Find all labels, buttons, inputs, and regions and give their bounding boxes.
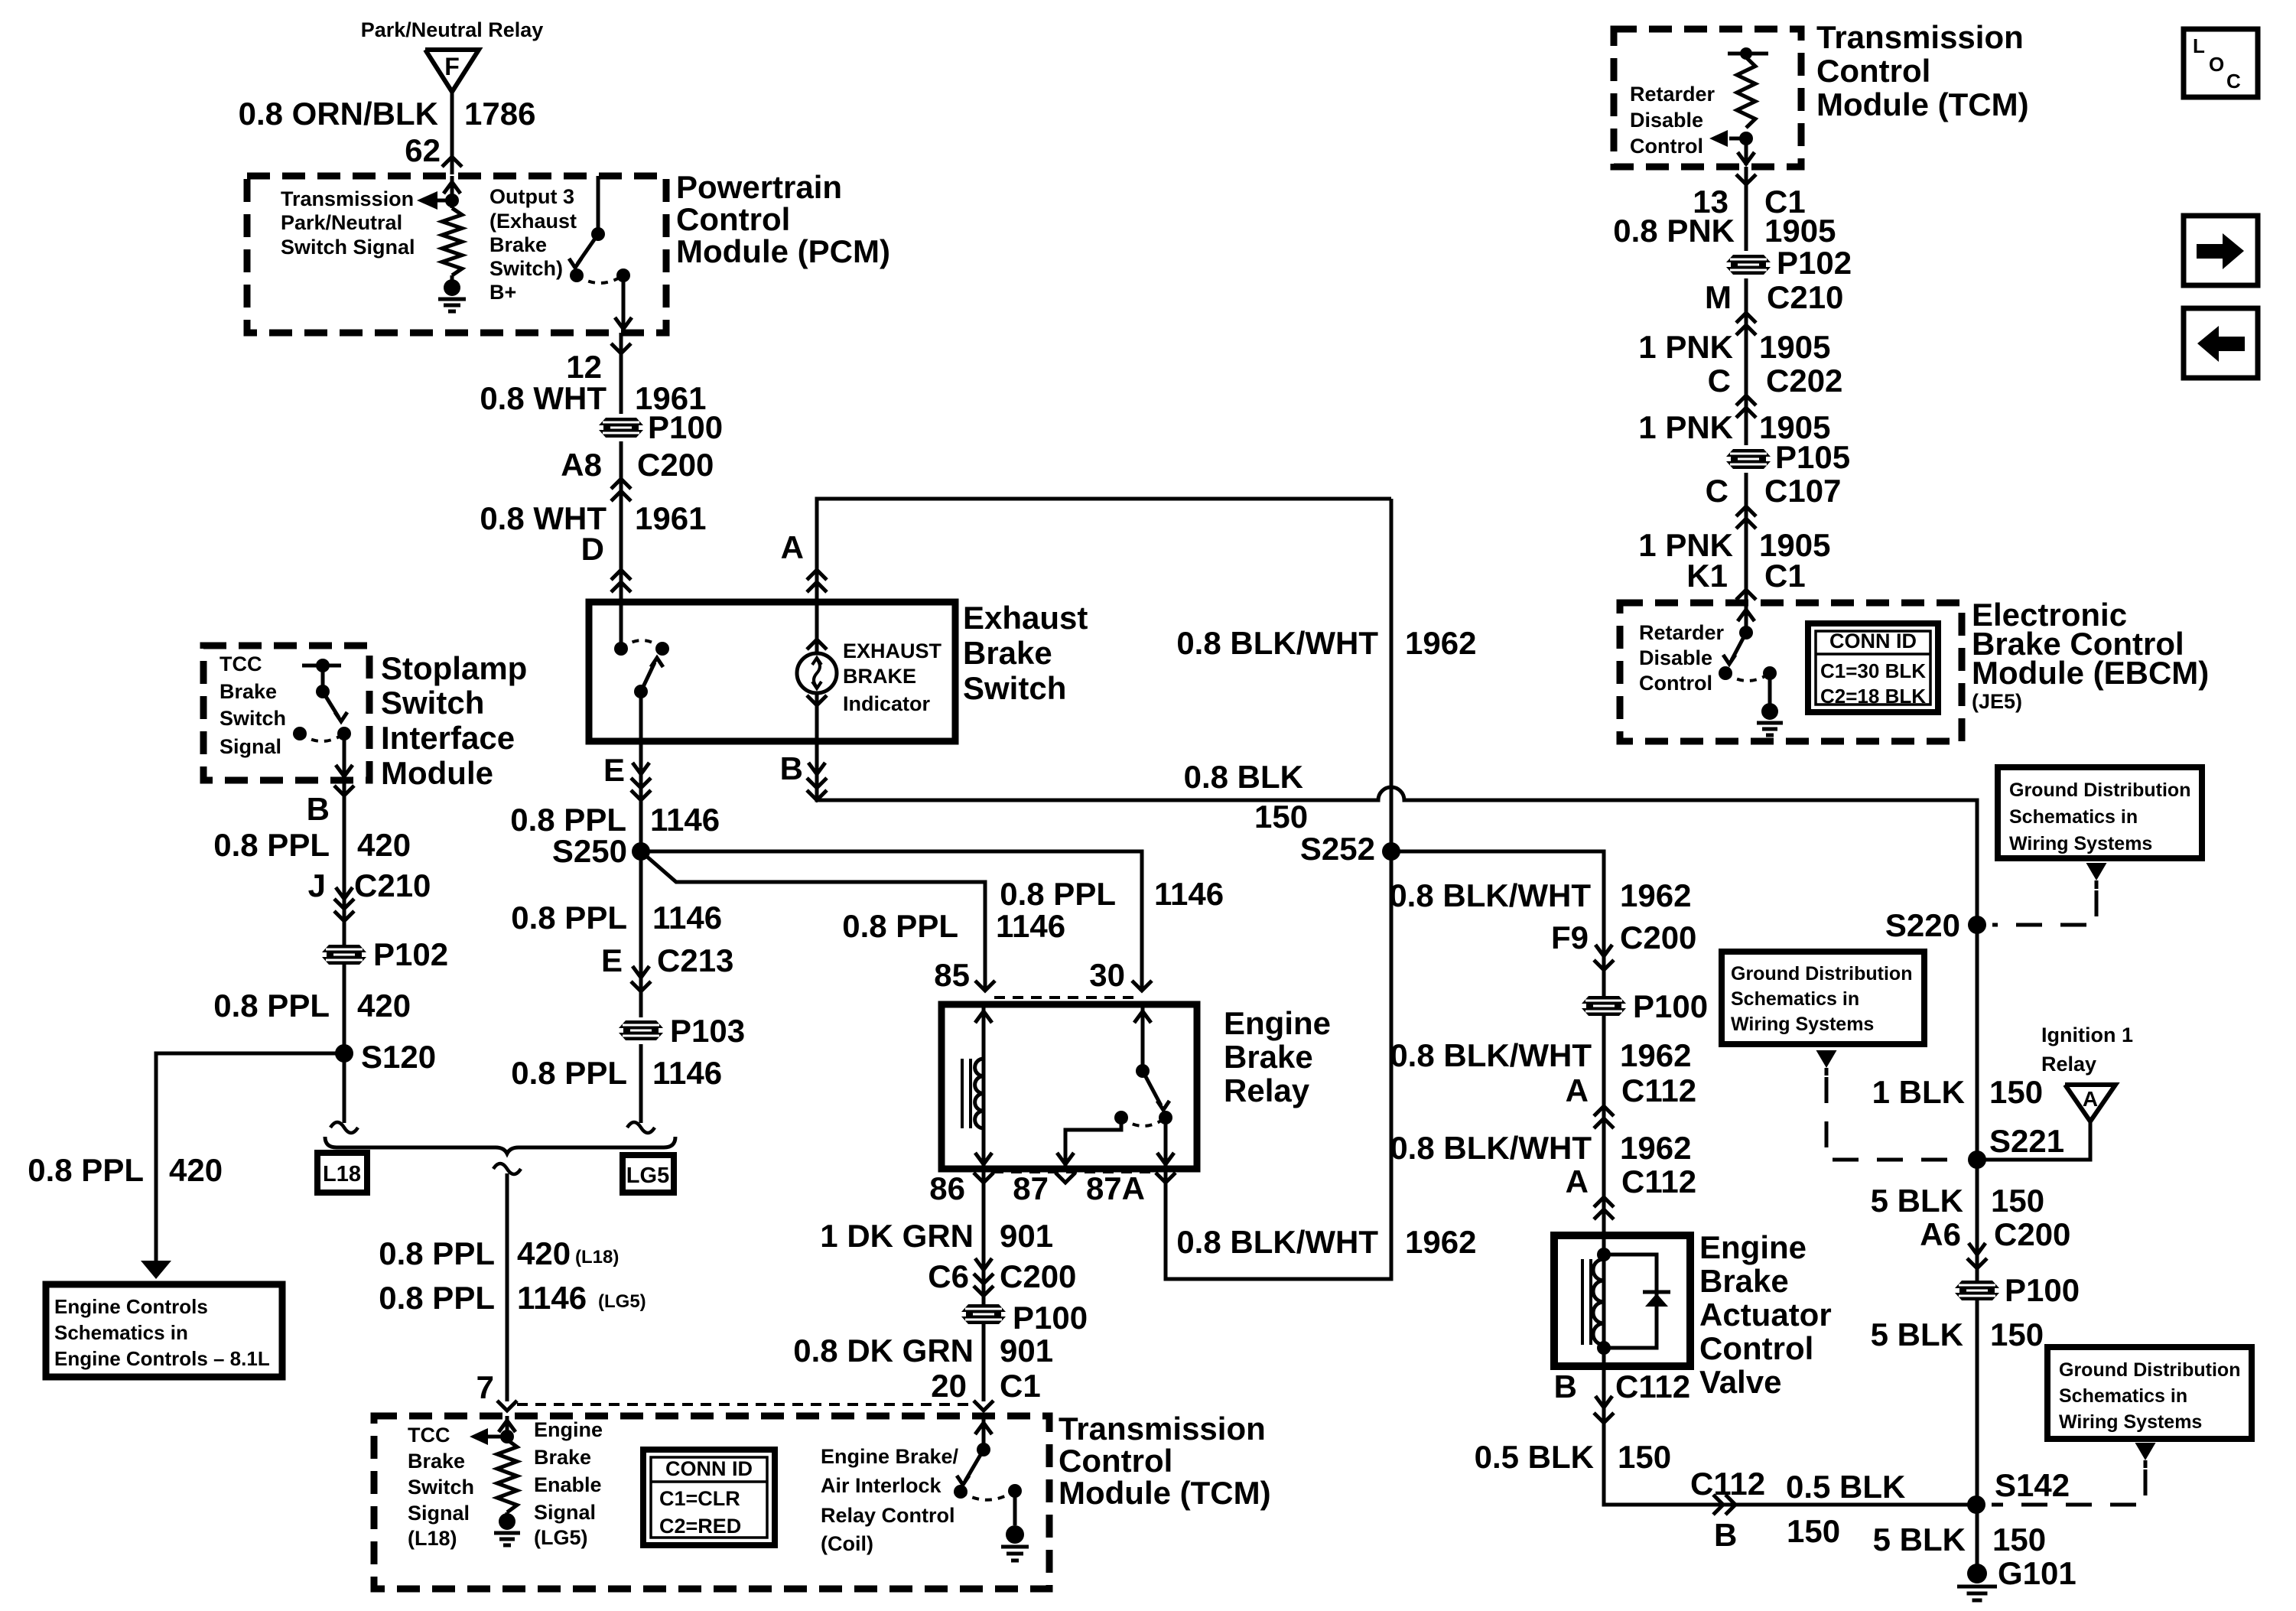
- connector chevron A double: [807, 570, 827, 580]
- svg-text:0.8 BLK/WHT: 0.8 BLK/WHT: [1176, 625, 1378, 661]
- wire F relay to PCM pin 62: [450, 92, 454, 174]
- pin E exit arrow and chevrons: [633, 763, 649, 774]
- Ground Distribution reference box middle: [1722, 952, 1924, 1044]
- svg-text:Brake: Brake: [534, 1446, 591, 1469]
- svg-text:A6: A6: [1920, 1216, 1961, 1252]
- chevron pin 7: [497, 1401, 517, 1411]
- relay switch entry arrow: [1134, 1011, 1151, 1023]
- svg-text:Wiring Systems: Wiring Systems: [2059, 1411, 2202, 1433]
- TCM stub dot: [1740, 47, 1752, 60]
- exhaust switch contact dot left: [614, 642, 628, 656]
- TCM resistor stub: [1728, 52, 1768, 56]
- svg-text:P105: P105: [1775, 439, 1850, 475]
- svg-text:(JE5): (JE5): [1972, 690, 2022, 713]
- svg-text:Switch: Switch: [381, 685, 484, 721]
- splice S221: [1968, 1150, 1986, 1169]
- svg-text:Powertrain: Powertrain: [676, 169, 842, 205]
- dashed reference S220: [1992, 890, 2096, 925]
- svg-text:1962: 1962: [1405, 1224, 1476, 1260]
- svg-text:Brake: Brake: [489, 233, 547, 256]
- svg-text:P100: P100: [1013, 1300, 1088, 1336]
- svg-text:Control: Control: [1699, 1330, 1813, 1366]
- svg-text:1962: 1962: [1620, 877, 1691, 913]
- dashed reference S142: [1992, 1469, 2145, 1505]
- wire C202 to P105: [1745, 417, 1748, 445]
- connector C112 double chevron up: [1594, 1106, 1614, 1116]
- svg-text:A: A: [781, 529, 804, 565]
- reference triangle below middle box: [1816, 1050, 1837, 1068]
- chevron pin 30: [1132, 981, 1152, 991]
- svg-text:J: J: [308, 867, 326, 903]
- svg-text:150: 150: [1991, 1183, 2044, 1219]
- PCM exhaust brake switch: fixed contact wire: [597, 176, 600, 234]
- svg-text:150: 150: [1787, 1513, 1840, 1549]
- wire S252 to F9: [1391, 851, 1604, 1235]
- relay switch 87 throw dot: [1114, 1111, 1128, 1124]
- svg-text:Switch: Switch: [963, 670, 1066, 706]
- svg-text:12: 12: [566, 349, 602, 385]
- svg-text:Park/Neutral Relay: Park/Neutral Relay: [361, 18, 544, 41]
- svg-text:Stoplamp: Stoplamp: [381, 650, 527, 686]
- svg-text:C200: C200: [1994, 1216, 2070, 1252]
- wire pin B to S120: [343, 780, 346, 1053]
- svg-text:S252: S252: [1300, 831, 1375, 867]
- svg-text:TCC: TCC: [408, 1424, 450, 1447]
- connector C112 double chevron up second: [1594, 1197, 1614, 1207]
- svg-text:5 BLK: 5 BLK: [1873, 1521, 1966, 1557]
- switch dashed arc: [577, 275, 623, 283]
- chevron below indicator: [807, 695, 827, 705]
- relay coil wire 85-86: [982, 1004, 986, 1169]
- wire TCM pin 13 exit: [1745, 138, 1748, 165]
- svg-text:Air Interlock: Air Interlock: [821, 1474, 942, 1497]
- wire valve pin B down to S142 run: [1604, 1366, 1976, 1505]
- svg-text:Module (TCM): Module (TCM): [1059, 1475, 1271, 1511]
- svg-text:1905: 1905: [1759, 329, 1830, 365]
- svg-text:0.8 PPL: 0.8 PPL: [213, 988, 330, 1024]
- svg-text:Engine: Engine: [534, 1418, 603, 1441]
- svg-text:0.8 PPL: 0.8 PPL: [213, 827, 330, 863]
- svg-text:Engine Controls – 8.1L: Engine Controls – 8.1L: [54, 1347, 270, 1370]
- svg-text:L18: L18: [323, 1162, 361, 1186]
- svg-text:B: B: [307, 791, 330, 827]
- svg-text:0.8 PPL: 0.8 PPL: [1000, 876, 1116, 912]
- resistor in PCM: [450, 200, 454, 208]
- LOC legend box: [2184, 29, 2258, 97]
- wire stoplamp switch output pin B: [343, 734, 346, 778]
- svg-text:CONN ID: CONN ID: [1829, 630, 1917, 653]
- svg-text:Ignition 1: Ignition 1: [2041, 1024, 2133, 1046]
- svg-text:C200: C200: [637, 447, 714, 483]
- stoplamp switch right throw dot: [337, 727, 351, 740]
- svg-text:C107: C107: [1764, 473, 1841, 509]
- svg-text:0.5 BLK: 0.5 BLK: [1786, 1469, 1905, 1505]
- Exhaust Brake Switch box: [589, 602, 955, 741]
- connector C200 arrow+chevron on ground lead: [1969, 1243, 1985, 1255]
- svg-text:0.8 PPL: 0.8 PPL: [511, 1055, 627, 1091]
- relay bottom connector chevrons: [974, 1173, 994, 1183]
- EBCM switch left throw dot: [1719, 666, 1732, 680]
- svg-text:P102: P102: [373, 936, 448, 972]
- svg-text:C: C: [2226, 70, 2241, 93]
- svg-text:Ground Distribution: Ground Distribution: [2059, 1359, 2240, 1381]
- valve coil top node: [1597, 1248, 1611, 1261]
- relay switch dashed arc: [1121, 1118, 1166, 1126]
- svg-text:150: 150: [1989, 1074, 2043, 1110]
- svg-text:30: 30: [1089, 957, 1125, 993]
- TCM switch ground stem: [1013, 1491, 1017, 1525]
- svg-text:Brake: Brake: [220, 680, 277, 703]
- svg-text:1 PNK: 1 PNK: [1638, 409, 1733, 445]
- svg-text:Enable: Enable: [534, 1473, 602, 1496]
- relay reference triangle F (Park/Neutral Relay): [425, 50, 479, 92]
- EBCM switch ground stem: [1768, 673, 1772, 704]
- svg-text:Switch Signal: Switch Signal: [281, 236, 415, 259]
- chevron pin 13: [1736, 174, 1756, 184]
- svg-text:Schematics in: Schematics in: [2059, 1385, 2187, 1407]
- svg-text:C1=30 BLK: C1=30 BLK: [1820, 659, 1926, 682]
- svg-text:20: 20: [931, 1368, 967, 1404]
- valve coil: [1593, 1259, 1604, 1345]
- svg-text:E: E: [603, 752, 625, 788]
- pin B exit arrow + chevron: [1595, 1396, 1612, 1408]
- connector P100 grommet on 86 wire: [961, 1304, 1006, 1324]
- svg-text:Schematics in: Schematics in: [54, 1321, 188, 1344]
- svg-text:Wiring Systems: Wiring Systems: [2009, 833, 2152, 854]
- TCM relay control switch entry arrow: [982, 1416, 986, 1450]
- valve diode branch: [1604, 1255, 1657, 1348]
- wire pin 13 to P102: [1745, 167, 1748, 251]
- svg-text:Switch: Switch: [220, 707, 286, 730]
- svg-text:85: 85: [934, 957, 970, 993]
- svg-text:(L18): (L18): [575, 1247, 619, 1268]
- legend box arrow left: [2184, 308, 2258, 378]
- svg-text:B: B: [780, 750, 803, 786]
- wire S120 down to brace: [343, 1053, 346, 1123]
- svg-text:(Exhaust: (Exhaust: [489, 210, 577, 233]
- svg-text:C6: C6: [928, 1258, 969, 1294]
- svg-text:Disable: Disable: [1630, 109, 1703, 132]
- svg-text:EXHAUST: EXHAUST: [843, 640, 942, 662]
- relay wire to pin 87A: [1164, 1118, 1168, 1169]
- connector C200 arrow + chevrons on 86 wire: [975, 1258, 992, 1270]
- svg-text:Retarder: Retarder: [1639, 621, 1725, 644]
- Ground Distribution reference box bottom right: [2047, 1347, 2252, 1439]
- relay switch arm: [1143, 1071, 1161, 1105]
- svg-text:1146: 1146: [650, 802, 720, 838]
- wire pin E to S250: [639, 741, 643, 851]
- ground in PCM: [450, 275, 454, 280]
- connector C107 double chevron up: [1736, 506, 1756, 516]
- resistor in TCM: [497, 1440, 517, 1512]
- svg-text:C210: C210: [1767, 279, 1843, 315]
- svg-text:0.8 ORN/BLK: 0.8 ORN/BLK: [239, 96, 438, 132]
- TCM switch contact dot: [977, 1443, 990, 1456]
- relay reference triangle A (Ignition 1 Relay): [2065, 1085, 2116, 1121]
- svg-text:(Coil): (Coil): [821, 1532, 873, 1555]
- svg-text:1 BLK: 1 BLK: [1872, 1074, 1965, 1110]
- svg-text:87A: 87A: [1086, 1170, 1145, 1206]
- legend box arrow right: [2184, 216, 2258, 285]
- exhaust switch arm pivot dot: [634, 685, 648, 698]
- relay switch wire from 30: [1141, 1004, 1145, 1071]
- svg-text:Engine Controls: Engine Controls: [54, 1295, 208, 1318]
- svg-text:A: A: [1566, 1163, 1589, 1199]
- svg-text:1961: 1961: [635, 500, 706, 536]
- svg-text:C213: C213: [657, 942, 733, 978]
- EBCM switch right throw dot: [1763, 666, 1777, 680]
- svg-text:0.8 BLK/WHT: 0.8 BLK/WHT: [1389, 877, 1591, 913]
- svg-text:0.8 BLK: 0.8 BLK: [1184, 759, 1303, 795]
- wire switch output to PCM pin 12: [622, 275, 626, 330]
- svg-text:150: 150: [1992, 1521, 2046, 1557]
- svg-text:C112: C112: [1615, 1369, 1690, 1404]
- connector P103 grommet: [619, 1020, 663, 1040]
- reference triangle below box: [2086, 863, 2107, 880]
- svg-text:C1: C1: [1000, 1368, 1041, 1404]
- wire C107 to EBCM: [1745, 528, 1748, 603]
- svg-text:B: B: [1714, 1517, 1737, 1553]
- svg-text:Brake: Brake: [1699, 1263, 1789, 1299]
- connector C200 arrow+chevron on F9 wire: [1595, 945, 1612, 956]
- svg-text:Control: Control: [1630, 135, 1703, 158]
- svg-text:Schematics in: Schematics in: [2009, 806, 2138, 828]
- svg-text:CONN ID: CONN ID: [665, 1457, 753, 1480]
- wire C210 to C202: [1745, 334, 1748, 417]
- relay coil exit arrow bottom: [975, 1153, 992, 1164]
- splice S142: [1967, 1495, 1985, 1514]
- relay wire to pin 87: [1065, 1118, 1121, 1169]
- svg-text:F: F: [444, 53, 460, 80]
- svg-text:(LG5): (LG5): [534, 1526, 588, 1549]
- svg-text:Retarder: Retarder: [1630, 83, 1715, 106]
- svg-text:0.8 BLK/WHT: 0.8 BLK/WHT: [1390, 1037, 1592, 1073]
- svg-text:1146: 1146: [996, 908, 1065, 944]
- wire-merge tilde right: [627, 1122, 655, 1133]
- svg-text:S120: S120: [361, 1039, 436, 1075]
- exhaust switch contact dot right: [655, 642, 669, 656]
- svg-text:1786: 1786: [464, 96, 535, 132]
- svg-text:Module (EBCM): Module (EBCM): [1972, 655, 2209, 691]
- svg-text:420: 420: [357, 988, 411, 1024]
- svg-text:Signal: Signal: [220, 735, 281, 758]
- svg-text:1 PNK: 1 PNK: [1638, 329, 1733, 365]
- svg-text:Switch): Switch): [489, 257, 563, 280]
- connector P102 grommet top right: [1726, 255, 1771, 275]
- stoplamp switch: stub and contact: [302, 664, 341, 668]
- svg-text:150: 150: [1618, 1439, 1671, 1475]
- svg-text:1962: 1962: [1620, 1037, 1691, 1073]
- svg-text:Control: Control: [1059, 1443, 1172, 1479]
- svg-text:5 BLK: 5 BLK: [1871, 1316, 1963, 1352]
- stoplamp switch left throw dot: [293, 727, 307, 740]
- wire P102 to C210: [1745, 278, 1748, 334]
- valve coil wire: [1602, 1235, 1606, 1366]
- Engine Brake Actuator Control Valve box: [1554, 1235, 1690, 1366]
- Ground Distribution reference box top right: [1998, 767, 2202, 858]
- svg-text:150: 150: [1990, 1316, 2044, 1352]
- svg-text:(LG5): (LG5): [598, 1291, 646, 1312]
- svg-text:Relay: Relay: [1224, 1072, 1310, 1108]
- CONN ID table EBCM: [1808, 623, 1938, 712]
- svg-text:7: 7: [476, 1369, 494, 1405]
- svg-text:0.8 DK GRN: 0.8 DK GRN: [793, 1333, 974, 1369]
- wire S250 branch to relay pin 30: [641, 851, 1142, 991]
- relay connector dashed line top: [994, 996, 1133, 999]
- switch throw dot left: [570, 268, 584, 282]
- wire relay pin 86 to TCM pin 20: [982, 1172, 986, 1401]
- splice S252: [1382, 842, 1400, 861]
- CONN ID table TCM: [643, 1450, 775, 1545]
- wire PCM pin 12 to P100: [620, 333, 623, 414]
- svg-text:Schematics in: Schematics in: [1731, 988, 1859, 1010]
- svg-text:(L18): (L18): [408, 1527, 457, 1550]
- svg-text:1146: 1146: [1154, 876, 1224, 912]
- svg-text:B: B: [1554, 1369, 1577, 1404]
- wire S250 diagonal branch to relay pin 85: [641, 851, 985, 991]
- TCM internal junction dot: [500, 1430, 514, 1443]
- valve coil bottom node: [1597, 1341, 1611, 1355]
- relay switch 87A throw dot: [1159, 1111, 1172, 1124]
- relay coil: [975, 1059, 984, 1128]
- svg-text:D: D: [581, 531, 604, 567]
- svg-text:C210: C210: [354, 867, 431, 903]
- svg-text:C2=18 BLK: C2=18 BLK: [1820, 685, 1926, 708]
- EBCM pin K1 entry arrow: [1745, 603, 1748, 633]
- svg-text:0.8 PPL: 0.8 PPL: [511, 900, 627, 936]
- switch contact dot: [591, 227, 605, 241]
- svg-text:Module (PCM): Module (PCM): [676, 233, 890, 269]
- double chevron on S142 horizontal run: [1713, 1495, 1723, 1515]
- exhaust brake indicator lamp circle: [797, 653, 837, 693]
- svg-text:Indicator: Indicator: [843, 692, 931, 715]
- svg-text:S221: S221: [1989, 1123, 2064, 1159]
- stoplamp switch dashed arc: [300, 734, 344, 741]
- wire-merge tilde left: [330, 1122, 358, 1133]
- svg-text:Control: Control: [1639, 672, 1712, 695]
- diode in valve: [1643, 1290, 1670, 1294]
- svg-text:1146: 1146: [517, 1280, 587, 1316]
- main ground lead: S220 S221 column: [1976, 800, 1979, 1565]
- connector C200 double chevron: [611, 479, 631, 489]
- svg-text:G101: G101: [1998, 1555, 2076, 1591]
- dashed reference S221: [1826, 1077, 1962, 1160]
- TCM pin 7 entry arrow: [506, 1416, 509, 1437]
- TCM switch left throw dot: [954, 1485, 968, 1499]
- svg-text:Brake: Brake: [408, 1450, 465, 1473]
- connector C210 arrow + double chevron: [336, 887, 353, 899]
- connector C213 arrow + chevron: [633, 966, 649, 978]
- exhaust switch: D contact wire: [620, 602, 623, 649]
- svg-text:Engine: Engine: [1224, 1005, 1331, 1041]
- svg-text:P100: P100: [1633, 988, 1708, 1024]
- svg-text:Park/Neutral: Park/Neutral: [281, 211, 402, 234]
- connector chevron pin 62: [442, 157, 462, 167]
- chevron pin 20: [974, 1401, 994, 1411]
- resistor in TCM top: [1737, 57, 1755, 128]
- svg-text:P100: P100: [2005, 1272, 2080, 1308]
- ground at TCM switch: [1006, 1525, 1024, 1544]
- svg-text:Relay: Relay: [2041, 1053, 2096, 1076]
- svg-text:C200: C200: [1620, 919, 1696, 955]
- svg-text:Engine Brake/: Engine Brake/: [821, 1445, 959, 1468]
- tag LG5: [623, 1155, 674, 1193]
- svg-text:A: A: [2083, 1087, 2098, 1111]
- svg-text:86: 86: [929, 1170, 965, 1206]
- arrowhead to Engine Controls box: [141, 1261, 171, 1279]
- svg-text:Brake: Brake: [1224, 1039, 1313, 1075]
- svg-text:0.8 PPL: 0.8 PPL: [842, 908, 958, 944]
- svg-text:S142: S142: [1995, 1467, 2070, 1503]
- connector P105 grommet: [1726, 449, 1771, 469]
- svg-text:0.5 BLK: 0.5 BLK: [1475, 1439, 1594, 1475]
- svg-text:C1: C1: [1764, 558, 1806, 594]
- svg-text:TCC: TCC: [220, 653, 262, 675]
- svg-text:Transmission: Transmission: [1816, 19, 2024, 55]
- TCM switch right throw dot: [1008, 1484, 1022, 1498]
- wire S250 to P103: [639, 851, 643, 1017]
- connector P100 grommet on ground lead: [1955, 1281, 1999, 1300]
- EBCM switch dashed arc: [1725, 673, 1770, 681]
- svg-text:Ground Distribution: Ground Distribution: [1731, 963, 1912, 984]
- svg-text:S220: S220: [1885, 907, 1960, 943]
- svg-text:E: E: [601, 942, 623, 978]
- svg-text:C2=RED: C2=RED: [659, 1515, 741, 1538]
- brace joining L18 and LG5 wires: [325, 1137, 675, 1154]
- relay coil entry arrow top: [975, 1011, 992, 1023]
- PCM Transmission Park/Neutral Switch Signal arrow: [423, 199, 452, 203]
- svg-text:0.8 WHT: 0.8 WHT: [480, 380, 607, 416]
- svg-text:C112: C112: [1621, 1072, 1696, 1108]
- PCM dashed box: [247, 176, 666, 333]
- svg-text:1962: 1962: [1620, 1130, 1691, 1166]
- svg-text:1 DK GRN: 1 DK GRN: [820, 1218, 974, 1254]
- svg-text:Transmission: Transmission: [281, 187, 414, 210]
- svg-text:Module: Module: [381, 755, 493, 791]
- splice S250: [632, 842, 650, 861]
- svg-text:Output 3: Output 3: [489, 185, 574, 208]
- TCM switch dashed arc: [961, 1491, 1015, 1500]
- splice S220: [1968, 916, 1986, 934]
- connector P100 grommet on F9 wire: [1582, 996, 1626, 1016]
- svg-text:A: A: [1566, 1072, 1589, 1108]
- wire P100 to C200: [620, 441, 623, 501]
- svg-text:0.8 BLK/WHT: 0.8 BLK/WHT: [1390, 1130, 1592, 1166]
- svg-text:P100: P100: [648, 409, 723, 445]
- splice S120: [335, 1044, 353, 1063]
- chevron above indicator: [807, 640, 827, 649]
- Transmission Control Module (TCM) dashed box top: [1614, 29, 1801, 167]
- svg-text:Interface: Interface: [381, 720, 515, 756]
- connector C202 double chevron up: [1736, 395, 1756, 405]
- switch arm: [577, 234, 598, 264]
- svg-text:C: C: [1708, 363, 1731, 399]
- svg-text:S250: S250: [552, 833, 627, 869]
- TCM C1 connector dashed line: [517, 1403, 974, 1406]
- wire riser top to exhaust switch pin A: [1390, 499, 1394, 851]
- svg-text:Control: Control: [1816, 53, 1930, 89]
- svg-text:F9: F9: [1551, 919, 1589, 955]
- Electronic Brake Control Module dashed box: [1620, 603, 1962, 741]
- svg-text:C200: C200: [1000, 1258, 1076, 1294]
- PCM pin 62 entry arrow: [450, 176, 454, 200]
- svg-text:C: C: [1706, 473, 1729, 509]
- svg-text:901: 901: [1000, 1218, 1053, 1254]
- TCC Brake Switch Signal arrow: [488, 1435, 507, 1439]
- svg-text:1146: 1146: [652, 900, 722, 936]
- svg-text:P103: P103: [670, 1013, 745, 1049]
- chevron pin K1: [1736, 590, 1756, 600]
